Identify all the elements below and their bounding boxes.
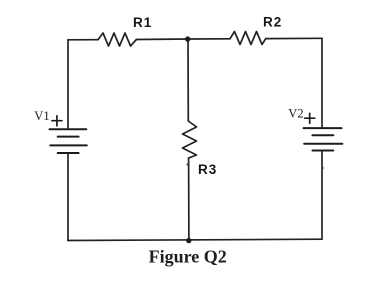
wire top between node A and R2 — [188, 38, 230, 40]
wire top-right segment — [266, 37, 322, 39]
plus sign of V2 — [305, 113, 315, 123]
battery V2 plate long — [304, 143, 342, 145]
battery V2 plate short — [312, 134, 333, 136]
battery V2 plate short (bottom, -) — [312, 150, 333, 152]
wire top-left segment — [68, 39, 98, 41]
battery V1 plate short (bottom, -) — [58, 152, 79, 154]
battery V2 — [304, 128, 343, 150]
resistor R1 — [98, 33, 136, 46]
scan speck on left wire upper — [67, 83, 69, 85]
battery V2 plate long (top, +) — [304, 127, 342, 129]
svg-text:R1: R1 — [133, 15, 152, 30]
scan speck on left wire — [67, 166, 69, 168]
plus sign of V1 — [52, 116, 62, 126]
wire left vertical lower — [67, 153, 69, 241]
wire bottom — [68, 239, 322, 240]
wire top between R1 and node A — [136, 38, 188, 41]
battery V1 plate short — [58, 136, 79, 138]
battery V1 plate long — [50, 144, 87, 146]
resistor R2 — [230, 32, 266, 45]
node A junction dot (top middle) — [185, 36, 190, 41]
scan speck on middle wire — [187, 163, 189, 165]
svg-text:Figure Q2: Figure Q2 — [149, 246, 227, 266]
wire middle vertical upper — [187, 39, 189, 121]
scan speck on right wire — [322, 167, 324, 169]
battery V1 — [50, 129, 87, 153]
battery V1 plate long (top, +) — [50, 128, 87, 130]
wire left vertical upper — [67, 40, 69, 129]
svg-text:V2: V2 — [288, 107, 303, 121]
svg-text:R2: R2 — [263, 15, 282, 30]
wire right vertical upper — [321, 38, 323, 128]
svg-text:V1: V1 — [34, 109, 49, 123]
wire right vertical lower — [321, 151, 323, 240]
resistor R3 — [183, 121, 197, 158]
svg-text:R3: R3 — [198, 162, 217, 177]
wire middle vertical lower — [188, 158, 190, 241]
node B junction dot (bottom middle) — [186, 238, 191, 243]
